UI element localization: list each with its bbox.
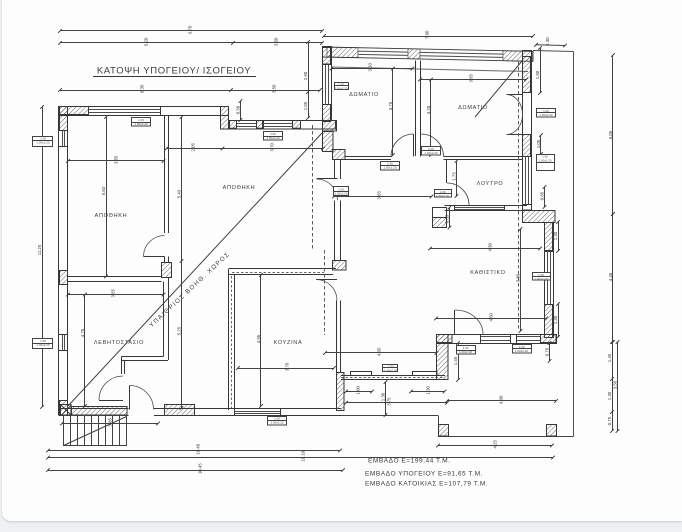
label box window bedroom1 left: [334, 82, 349, 90]
label box window left wall 1: [33, 136, 54, 146]
dimension 2.05/3.70: [165, 143, 325, 152]
terrace column left: [439, 425, 449, 437]
label box door bedroom2: [422, 147, 441, 156]
svg-text:1.00x2.20: 1.00x2.20: [436, 194, 450, 198]
dimension 3.50 right: [612, 340, 619, 433]
wall: kitchen right pier: [337, 301, 345, 411]
svg-text:3.55: 3.55: [110, 289, 115, 298]
dimension 5.43/5.25: [176, 115, 183, 410]
label box door bottom wall label: [268, 417, 287, 426]
svg-text:10.40: 10.40: [195, 443, 200, 454]
dimension 1.30 step v: [380, 380, 387, 417]
room label kitchen: [274, 340, 303, 346]
label box door bedroom1: [381, 162, 400, 171]
svg-text:1.30: 1.30: [553, 315, 558, 324]
dimension 2.90/1.05: [303, 40, 310, 120]
svg-text:3.10: 3.10: [367, 63, 372, 72]
wall: living room bottom wall: [437, 334, 557, 344]
room label bedroom 1: [349, 92, 379, 98]
wall: bottom wall left block: [59, 405, 341, 416]
wall: bathroom bottom: [445, 206, 528, 212]
dimension 9.70: [58, 25, 324, 34]
dimension 8.35/3.50: [58, 84, 322, 93]
dimension 0.70 corner: [544, 341, 551, 363]
dimension 3.85 living: [515, 227, 522, 333]
door boiler room: [99, 376, 123, 401]
svg-text:1.60: 1.60: [535, 70, 540, 79]
svg-text:ΚΑΤΟΨΗ ΥΠΟΓΕΙΟΥ/ ΙΣΟΓΕΙΟΥ: ΚΑΤΟΨΗ ΥΠΟΓΕΙΟΥ/ ΙΣΟΓΕΙΟΥ: [97, 66, 251, 77]
dimension 3.75 lower: [344, 397, 449, 406]
dimension 3.65: [332, 191, 433, 200]
svg-text:5.43: 5.43: [176, 189, 181, 198]
diagonal line outdoor area: [68, 133, 322, 406]
svg-text:18.10: 18.10: [300, 450, 305, 461]
svg-text:ΔΩΜΑΤΙΟ: ΔΩΜΑΤΙΟ: [458, 105, 488, 111]
wall: boiler step: [122, 357, 169, 375]
svg-text:3.85: 3.85: [515, 273, 520, 282]
dimension 4.45 right: [608, 212, 615, 344]
dimension 4.75: [80, 293, 87, 408]
wall: lower top band: [229, 121, 337, 132]
wall: middle vertical hatch upper: [323, 132, 334, 152]
svg-text:1.05: 1.05: [536, 139, 541, 148]
room label bedroom 2: [458, 105, 488, 111]
svg-text:4.45: 4.45: [608, 272, 613, 281]
wall: middle horizontal hatch: [333, 150, 346, 160]
svg-text:10.45: 10.45: [197, 463, 202, 474]
label box door middle: [334, 187, 349, 196]
door bottom wall: [130, 386, 154, 410]
svg-text:1.00x2.20: 1.00x2.20: [424, 151, 438, 155]
svg-text:1.00x2.20: 1.00x2.20: [538, 158, 552, 162]
svg-text:3.95: 3.95: [468, 74, 473, 83]
room label outdoor rotated: [148, 251, 231, 329]
area text line 3: [365, 481, 488, 488]
svg-text:1.00x2.20: 1.00x2.20: [384, 368, 398, 372]
terrace column right: [547, 425, 557, 437]
svg-text:5.83: 5.83: [101, 186, 106, 195]
svg-text:4.00: 4.00: [498, 395, 503, 404]
stairs: [64, 416, 127, 446]
dimension 1.45/1.30/0.75 right: [607, 340, 614, 433]
svg-text:8.35: 8.35: [139, 84, 144, 93]
svg-text:ΕΜΒΑΔΟ ΥΠΟΓΕΙΟΥ Ε=91,65 Τ.Μ: ΕΜΒΑΔΟ ΥΠΟΓΕΙΟΥ Ε=91,65 Τ.Μ.: [365, 471, 483, 478]
dimension 6.05 right: [608, 53, 615, 216]
label box window bathroom: [434, 190, 452, 199]
svg-text:7.60: 7.60: [424, 30, 429, 39]
wall: left outer wall: [59, 107, 69, 416]
svg-text:1.05: 1.05: [303, 101, 308, 110]
svg-text:1.30: 1.30: [553, 231, 558, 240]
dimension 5.83: [101, 115, 108, 278]
svg-text:1.00x2.20: 1.00x2.20: [334, 86, 348, 90]
svg-text:6.05: 6.05: [608, 130, 613, 139]
svg-text:11.25: 11.25: [37, 244, 42, 255]
dimension 18.10: [46, 450, 555, 461]
wall: living room right wall: [545, 223, 554, 338]
door storage: [144, 236, 169, 264]
dimension 3.70 kitchen: [236, 362, 336, 371]
label box window living bottom 2: [512, 345, 532, 354]
svg-text:4.95: 4.95: [256, 334, 261, 343]
svg-text:ΔΩΜΑΤΙΟ: ΔΩΜΑΤΙΟ: [349, 92, 379, 98]
dimension 3.75 bed1: [388, 67, 395, 157]
dashed line x324: [324, 250, 326, 335]
svg-text:ΥΠΑΙΘΡΙΟΣ ΒΟΗΘ. ΧΩΡΟΣ: ΥΠΑΙΘΡΙΟΣ ΒΟΗΘ. ΧΩΡΟΣ: [148, 251, 231, 329]
dimension 1.30 right b: [553, 302, 560, 339]
svg-text:3.50: 3.50: [612, 380, 617, 389]
svg-text:4.05: 4.05: [376, 347, 381, 356]
svg-text:1.73: 1.73: [451, 172, 456, 181]
svg-text:3.55: 3.55: [113, 155, 118, 164]
wall: corridor wall west: [345, 157, 391, 160]
dimension 3.85 stairs: [60, 418, 160, 427]
svg-text:3.85: 3.85: [107, 418, 112, 427]
svg-text:1.30: 1.30: [380, 392, 385, 401]
dimension 4.00 lower: [445, 395, 558, 404]
label box window right upper: [537, 109, 556, 118]
svg-text:1.00x2.20: 1.00x2.20: [534, 277, 548, 281]
label box bottom wall: [0, 0, 1, 1]
label box window left wall 2: [33, 339, 54, 349]
svg-text:2.05: 2.05: [190, 143, 195, 152]
door bedroom 1: [391, 134, 414, 157]
dimension 1.30 top right: [534, 37, 567, 48]
dimension 7.60: [322, 30, 535, 39]
wall: kitchen left: [229, 269, 235, 410]
svg-text:1.30: 1.30: [425, 386, 430, 395]
svg-text:1.00x2.20: 1.00x2.20: [36, 140, 50, 144]
svg-text:9.70: 9.70: [187, 25, 192, 34]
svg-text:1.00x2.20: 1.00x2.20: [539, 113, 553, 117]
wall: middle hatch block lower: [333, 261, 347, 271]
dimension 3.55 boiler: [66, 289, 165, 298]
dimension 3.95: [418, 74, 528, 83]
svg-text:2.90: 2.90: [303, 71, 308, 80]
svg-text:ΛΟΥΤΡΟ: ΛΟΥΤΡΟ: [477, 181, 504, 187]
dimension 0.50 step: [235, 99, 242, 122]
svg-text:3.50: 3.50: [273, 37, 278, 46]
dimension 6.20/3.50 top: [58, 37, 324, 46]
leader line bedroom 2: [475, 61, 522, 117]
svg-text:1.45: 1.45: [453, 356, 458, 365]
svg-text:4.50: 4.50: [488, 313, 493, 322]
wall: middle thin upper: [335, 159, 341, 179]
dimension 1.30 window: [409, 386, 446, 395]
room label bath: [477, 181, 504, 187]
svg-text:4.30: 4.30: [487, 243, 492, 252]
title text: [93, 66, 256, 77]
dashed line x313: [312, 125, 314, 250]
wall: right block left wall: [323, 47, 332, 122]
svg-text:3.75: 3.75: [388, 101, 393, 110]
svg-text:5.25: 5.25: [176, 326, 181, 335]
wall: top band left block: [59, 107, 229, 116]
svg-text:1.00: 1.00: [355, 386, 360, 395]
wall: step pier at x221: [221, 107, 229, 130]
room label storage big: [223, 185, 256, 191]
dimension 10.45: [46, 463, 345, 474]
wall: right outer wall upper: [523, 51, 532, 211]
svg-text:0.70: 0.70: [544, 347, 549, 356]
area text line 1: [368, 458, 451, 465]
wall: corridor wall east: [444, 157, 523, 160]
svg-text:ΑΠΟΘΗΚΗ: ΑΠΟΘΗΚΗ: [223, 185, 256, 191]
wall: south band: [341, 372, 445, 380]
label box window lower band: [264, 132, 283, 141]
label box window right mid: [536, 154, 555, 170]
svg-text:3.50: 3.50: [271, 84, 276, 93]
svg-text:0.75: 0.75: [607, 416, 612, 425]
svg-text:ΑΠΟΘΗΚΗ: ΑΠΟΘΗΚΗ: [95, 213, 128, 219]
door living room: [455, 310, 484, 334]
wall: step L pier: [437, 335, 449, 380]
door bedroom 2: [421, 134, 444, 157]
wall: top slanted wall: [323, 47, 534, 61]
dimension 3.70 bed2: [426, 78, 433, 157]
wall: storage divider hatch: [162, 263, 172, 278]
wall: inner ceiling line: [331, 67, 528, 72]
door kitchen: [316, 280, 337, 301]
svg-text:1.30: 1.30: [545, 37, 550, 46]
svg-text:4.75: 4.75: [80, 328, 85, 337]
svg-text:1.00x2.20: 1.00x2.20: [515, 349, 529, 353]
svg-text:0.85: 0.85: [539, 191, 544, 200]
dimension 0.65 column: [444, 206, 451, 230]
label box window living bottom 1: [456, 346, 476, 355]
svg-text:1.00x2.20: 1.00x2.20: [266, 136, 280, 140]
dimension 4.50: [434, 313, 548, 322]
label box window living right: [532, 273, 551, 282]
svg-text:ΛΕΒΗΤΟΣΤΑΣΙΟ: ΛΕΒΗΤΟΣΤΑΣΙΟ: [94, 340, 144, 346]
wall: middle thin lower: [335, 201, 341, 261]
dimension 4.25: [436, 440, 554, 449]
dashed line x519: [518, 61, 520, 330]
svg-text:1.00x2.20: 1.00x2.20: [36, 343, 50, 347]
svg-text:ΚΑΘΙΣΤΙΚΟ: ΚΑΘΙΣΤΙΚΟ: [470, 270, 505, 276]
svg-text:0.65: 0.65: [444, 214, 449, 223]
dimension 3.10: [330, 63, 415, 72]
svg-text:ΕΜΒΑΔΟ ΚΑΤΟΙΚΙΑΣ Ε=107,79: ΕΜΒΑΔΟ ΚΑΤΟΙΚΙΑΣ Ε=107,79 Τ.Μ.: [365, 481, 488, 488]
svg-text:1.00x2.20: 1.00x2.20: [270, 421, 284, 425]
dimension 1.73 bath: [451, 159, 458, 198]
room label living: [470, 270, 505, 276]
dimension 1.45 step: [453, 341, 460, 382]
svg-text:3.70: 3.70: [426, 105, 431, 114]
svg-text:1.30: 1.30: [607, 391, 612, 400]
door bathroom: [447, 160, 470, 205]
wall: storage-boiler wall: [68, 277, 162, 282]
svg-text:6.20: 6.20: [143, 37, 148, 46]
dimension 1.05 right wall: [536, 133, 543, 156]
room label boiler: [94, 340, 144, 346]
svg-text:3.70: 3.70: [284, 362, 289, 371]
wall: kitchen top: [229, 269, 337, 275]
dimension 10.40: [46, 443, 342, 454]
dimension 1.60 balcony: [535, 46, 542, 95]
room label storage left: [95, 213, 128, 219]
wall: storage divider: [165, 116, 169, 234]
svg-text:ΕΜΒΑΔΟ Ε=199,44 Τ.Μ.: ΕΜΒΑΔΟ Ε=199,44 Τ.Μ.: [368, 458, 451, 465]
svg-text:1.00x2.20: 1.00x2.20: [334, 191, 348, 195]
dimension 0.85 bath right: [539, 185, 546, 209]
wall: boiler right wall: [164, 278, 169, 360]
svg-text:1.00x2.20: 1.00x2.20: [383, 166, 397, 170]
column near bathroom: [433, 208, 447, 228]
dimension 4.95 kitchen: [256, 273, 263, 408]
dimension 3.55 storage: [66, 155, 165, 164]
door middle wall: [317, 179, 338, 201]
svg-text:0.50: 0.50: [235, 105, 240, 114]
door balcony double: [507, 95, 523, 135]
label box window top-left: [132, 118, 151, 127]
area text line 2: [365, 471, 483, 478]
dimension 1.30 right a: [553, 220, 560, 253]
dimension 1.00 window: [344, 386, 374, 395]
svg-text:1.00x2.20: 1.00x2.20: [459, 350, 473, 354]
svg-text:1.45: 1.45: [607, 353, 612, 362]
dimension 11.25 left: [37, 105, 44, 409]
wall: living room step-out band: [523, 211, 556, 223]
svg-text:1.00x2.20: 1.00x2.20: [134, 122, 148, 126]
svg-text:3.70: 3.70: [269, 143, 274, 152]
terrace boundary line: [341, 51, 574, 437]
svg-text:3.75: 3.75: [386, 397, 391, 406]
svg-text:4.25: 4.25: [492, 440, 497, 449]
wall: bedroom divider: [416, 61, 421, 157]
dimension 4.30: [428, 243, 542, 252]
dimension 4.05: [323, 347, 438, 356]
svg-text:3.65: 3.65: [376, 191, 381, 200]
label box window south band: [383, 364, 399, 372]
svg-text:ΚΟΥΖΙΝΑ: ΚΟΥΖΙΝΑ: [274, 340, 303, 346]
